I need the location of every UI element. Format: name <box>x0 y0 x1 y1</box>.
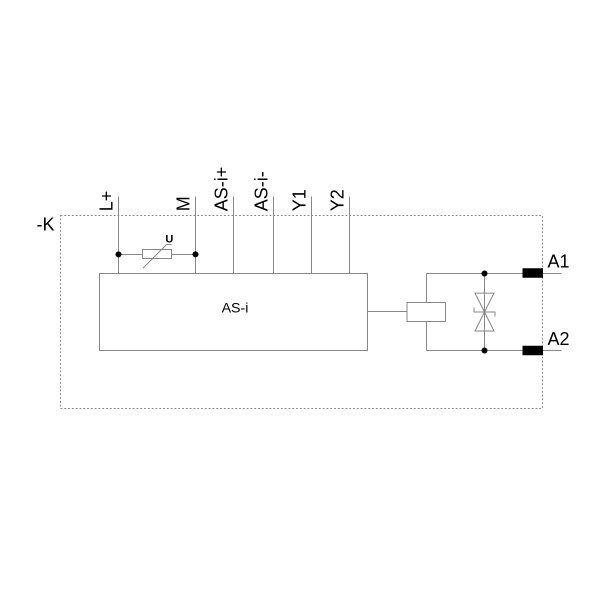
node M/varistor junction <box>193 251 199 257</box>
svg-text:AS-i-: AS-i- <box>252 171 272 211</box>
wire top rail to A1 <box>427 273 523 275</box>
node TVS top junction <box>482 271 488 277</box>
wire varistor to node M <box>172 254 196 256</box>
wire AS-i- <box>273 197 275 274</box>
wire Y2 <box>349 197 351 274</box>
wire TVS branch <box>484 274 486 351</box>
varistor U <box>143 245 172 269</box>
svg-text:M: M <box>174 196 194 211</box>
AS-i module box <box>100 274 368 351</box>
wire bottom rail to A2 <box>427 350 523 352</box>
wire AS-i+ <box>233 197 235 274</box>
relay coil <box>407 303 446 322</box>
wire Y1 <box>311 197 313 274</box>
svg-text:-K: -K <box>37 215 55 235</box>
wire M <box>195 197 197 274</box>
svg-text:AS-i: AS-i <box>222 301 249 317</box>
svg-text:Y2: Y2 <box>328 189 348 211</box>
terminal A1 <box>523 268 544 278</box>
svg-text:A2: A2 <box>548 329 570 349</box>
wire coil branch bottom <box>426 322 428 351</box>
wire A1 terminal to outside <box>543 273 562 275</box>
node TVS bottom junction <box>482 348 488 354</box>
svg-text:A1: A1 <box>548 252 570 272</box>
node L+/varistor junction <box>116 251 122 257</box>
dashed enclosure -K <box>61 216 543 409</box>
svg-text:U: U <box>165 234 173 246</box>
wire L+ <box>118 197 120 274</box>
TVS suppressor diode <box>474 293 495 331</box>
svg-text:Y1: Y1 <box>290 189 310 211</box>
wire box to relay coil <box>368 311 408 313</box>
wire A2 terminal to outside <box>543 350 562 352</box>
wire coil branch top <box>426 274 428 303</box>
svg-text:L+: L+ <box>97 191 117 212</box>
wire node L+ to varistor <box>119 254 143 256</box>
svg-text:AS-i+: AS-i+ <box>212 167 232 212</box>
terminal A2 <box>523 346 544 356</box>
